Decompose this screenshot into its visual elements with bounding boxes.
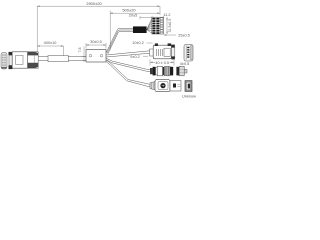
svg-text:500±20: 500±20: [122, 8, 136, 13]
svg-text:31.5±0.5: 31.5±0.5: [168, 19, 172, 33]
svg-text:40 ± 0.5: 40 ± 0.5: [155, 61, 169, 65]
svg-text:20±5: 20±5: [129, 13, 137, 17]
svg-text:400±10: 400±10: [44, 41, 57, 45]
svg-text:2900±20: 2900±20: [86, 1, 102, 6]
svg-text:10±0.2: 10±0.2: [132, 41, 144, 45]
svg-text:11.2: 11.2: [163, 13, 170, 17]
svg-text:9±0.2: 9±0.2: [130, 55, 139, 59]
svg-text:Unknow: Unknow: [182, 95, 196, 99]
svg-text:30±0.5: 30±0.5: [90, 40, 102, 44]
svg-text:25±0.5: 25±0.5: [178, 34, 190, 38]
svg-text:7.8: 7.8: [78, 48, 82, 53]
svg-text:4±0.5: 4±0.5: [180, 62, 189, 66]
